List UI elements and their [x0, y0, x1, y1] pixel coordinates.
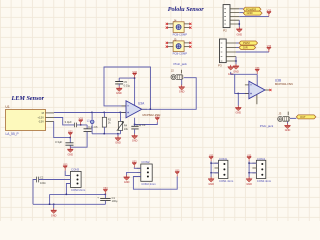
capacitor C3 stub [134, 125, 136, 127]
svg-text:GND: GND [236, 112, 242, 115]
power port V33 at P2 pin3 [267, 9, 272, 16]
resistor R2 bottom lead [103, 127, 105, 134]
svg-text:0.1µ C3: 0.1µ C3 [136, 123, 146, 127]
connector P2 body [223, 5, 230, 28]
power port V33 at CON1 [209, 154, 214, 161]
wire P3 pin1 to port [236, 42, 239, 44]
power port V33 at mid rail [103, 187, 108, 194]
svg-text:C5: C5 [124, 80, 128, 84]
wire CON3 pin3 down to mid rail [66, 184, 70, 195]
op-amp U3A body [126, 101, 142, 118]
svg-text:CON2 2mm: CON2 2mm [141, 182, 156, 186]
power port V33 at P3 pin3 [267, 45, 272, 52]
junction CON4 pin3 [248, 172, 250, 174]
pad J4 circle slot [176, 25, 181, 28]
capacitor C7 3.3uF plates [65, 143, 73, 145]
wire U3B V+ stub [256, 74, 258, 86]
ground GND below caps [67, 147, 73, 152]
pad J4 circle [176, 25, 181, 30]
op-amp U3B V- stub [256, 95, 258, 105]
ground GND under C3 [132, 134, 138, 139]
jack J2 GND stem [181, 79, 183, 85]
wire CON4 pin1 [249, 161, 256, 172]
svg-text:POWER: POWER [246, 7, 256, 11]
svg-text:GND: GND [233, 70, 239, 73]
capacitor C3 plates [131, 126, 138, 129]
op-amp U3A plus minus marks [127, 106, 129, 114]
svg-text:GND: GND [246, 183, 252, 186]
wire P3 pin3 to V33 [236, 51, 269, 53]
svg-text:100µ: 100µ [112, 199, 118, 203]
port POWER [243, 7, 261, 11]
no-connect X marks J4 [166, 23, 168, 25]
ground GND under jack J2 [179, 85, 185, 90]
junction U3B input node [238, 93, 240, 95]
junction supply node [134, 77, 136, 79]
capacitor C5 stub [118, 78, 120, 81]
trimmer R4 body [118, 121, 122, 130]
connector CON2 body [141, 164, 152, 181]
power port V33 on +15V rail [78, 118, 83, 125]
svg-text:GND: GND [247, 11, 253, 15]
connector CON2 pin stubs [137, 168, 141, 176]
wire P2 pin2 to port [239, 12, 243, 14]
svg-text:PCB-COMP: PCB-COMP [173, 52, 188, 56]
wire C6 bottom to ground rail [70, 132, 87, 148]
svg-text:Phdc_jack: Phdc_jack [174, 62, 188, 66]
junction P3 pin5 [235, 60, 237, 62]
svg-text:CON3 2mm: CON3 2mm [71, 188, 86, 192]
svg-text:U3A: U3A [138, 101, 145, 105]
capacitor C5 plates [115, 82, 123, 84]
connector CON3 pin stubs [67, 175, 71, 183]
svg-text:GND: GND [179, 90, 185, 93]
connector P3 pin marks [221, 43, 223, 61]
connector P2 pin marks [224, 9, 226, 24]
svg-text:DIR: DIR [243, 46, 248, 50]
junction mid rail at CON3 drop [66, 194, 68, 196]
svg-text:GND: GND [285, 129, 291, 132]
svg-text:Pololu Sensor: Pololu Sensor [168, 6, 205, 13]
junction on net M at L1 [91, 112, 93, 114]
svg-text:GND: GND [68, 153, 74, 156]
trimmer R4 bottom lead [120, 130, 122, 133]
connector CON1 pin stubs [215, 163, 219, 173]
svg-text:GND: GND [124, 181, 130, 184]
svg-text:C1: C1 [112, 196, 116, 200]
svg-text:P3: P3 [218, 64, 222, 68]
capacitor C4 3.3uF plates [75, 123, 77, 128]
power port V33 on -15V rail [68, 130, 73, 137]
port OUT [296, 115, 316, 119]
svg-text:CON1 4mm: CON1 4mm [219, 179, 234, 183]
wire V33 to CON2 pin1 [134, 166, 141, 169]
svg-text:PWM: PWM [243, 41, 250, 45]
op-amp U3A output stub [142, 108, 147, 110]
ground GND under P3 [233, 64, 239, 69]
svg-text:OUT: OUT [300, 115, 306, 119]
wire CON2 pin3 loop to V33 [133, 176, 177, 189]
svg-text:GND: GND [237, 33, 243, 36]
svg-text:GND: GND [132, 140, 138, 143]
connector CON3 body [71, 171, 82, 187]
wire bottom rail under R cluster [92, 133, 120, 135]
wire net M horizontal to op-amp input [54, 112, 126, 114]
pad J5 body [173, 41, 184, 52]
junction bottom rail at GND stem [117, 133, 119, 135]
junction mid rail at C1 [105, 194, 107, 196]
jack J3 pin1 tick [287, 112, 289, 116]
junction output/feedback [150, 108, 152, 110]
wire output net to jack riser [142, 78, 196, 110]
no-connect X marks J5 [166, 42, 168, 44]
wire -15V pin path [54, 122, 71, 138]
svg-text:0.01µ: 0.01µ [124, 83, 131, 87]
svg-text:P2: P2 [223, 28, 227, 32]
wire jack J3 to port [290, 117, 296, 119]
connector P2 pin stubs [230, 9, 239, 24]
junction P2 pin5 [239, 23, 241, 25]
capacitor C6 plates [84, 129, 92, 132]
svg-text:3.3µF: 3.3µF [65, 120, 72, 124]
ground GND under P2 [236, 27, 242, 32]
wire C3 to GND [134, 129, 136, 134]
power port V33 above U3B [255, 67, 260, 74]
ground GND left of CON2 [124, 175, 130, 180]
svg-text:C2: C2 [40, 176, 44, 180]
capacitor C2 plates [36, 177, 38, 183]
power port V33 at CON4 [247, 154, 252, 161]
ground GND under C5 [116, 86, 122, 91]
connector P3 body [220, 39, 227, 63]
connector CON3 pin dots [77, 174, 79, 176]
connector CON4 body [256, 160, 265, 178]
connector P3 pin stubs [226, 43, 236, 61]
junction -15V cap node [70, 137, 72, 139]
op-amp U3A input stubs [122, 106, 127, 113]
power port V33 at CON2 pin3 [175, 169, 180, 176]
capacitor C1 stub [104, 194, 106, 198]
svg-text:GND: GND [115, 142, 121, 145]
svg-text:LEM Sensor: LEM Sensor [11, 95, 45, 102]
junction CON1 pin3 [210, 172, 212, 174]
junction under V33 power port [80, 124, 82, 126]
power port V33 at CON2 pin1 [132, 160, 137, 167]
connector CON1 pin dots [223, 163, 225, 165]
wire V33 to CON3 pin1 [65, 171, 70, 176]
wire feedback loop [104, 67, 151, 109]
wire U3B top rail [231, 72, 258, 94]
junction bottom rail at R2 [104, 133, 106, 135]
svg-text:10k: 10k [124, 127, 129, 131]
svg-text:GND: GND [51, 214, 57, 217]
pin -15V stub [46, 121, 55, 123]
svg-text:MCP602-I/SN: MCP602-I/SN [275, 82, 293, 86]
wire U3B gnd drop [237, 94, 239, 106]
svg-text:Phdc_jack: Phdc_jack [260, 124, 274, 128]
capacitor C1 plates [100, 198, 110, 200]
svg-text:CON2: CON2 [141, 160, 149, 164]
inductor L1 bottom lead [91, 124, 93, 134]
jack J2 body [171, 75, 183, 80]
op-amp V- pin path [135, 118, 158, 125]
wire cap to GND [69, 145, 71, 147]
junction on net M at R4 [120, 112, 122, 114]
capacitor C7 stub [69, 138, 71, 143]
svg-text:LA_55_P: LA_55_P [6, 132, 19, 136]
op-amp U3B input stubs [245, 85, 249, 94]
wire CON1 GND stem [210, 173, 212, 177]
ground GND top-left of U3B [228, 65, 234, 70]
jack J3 body [278, 116, 290, 121]
connector CON1 body [219, 160, 228, 178]
svg-text:3.3µF: 3.3µF [55, 140, 62, 144]
junction V- node [134, 124, 136, 126]
wire CON2 pin2 to GND [127, 172, 141, 175]
ground GND under CON1 [208, 177, 214, 182]
junction bottom rail [49, 204, 51, 206]
trimmer R4 wiper arrow [117, 122, 124, 131]
port PWM [239, 41, 258, 45]
wire P2 pin4/5 to GND [238, 20, 240, 27]
svg-text:GND: GND [116, 92, 122, 95]
port GND [243, 11, 262, 15]
svg-text:PCB-COMP: PCB-COMP [173, 33, 188, 37]
pin +15V stub [46, 117, 55, 119]
pad J5 circle slot [176, 45, 181, 48]
wire P2 pin3 to V33 [239, 15, 269, 17]
connector CON4 pin dots [261, 163, 263, 165]
wire CON4 GND stem [248, 173, 250, 177]
capacitor C6 stub [86, 125, 88, 129]
pin M stub [46, 112, 55, 114]
connector CON2 pin dots [147, 167, 149, 169]
wire mid rail [50, 193, 106, 195]
wire C5 to GND [118, 84, 120, 86]
op-amp U3B output stub [265, 89, 269, 91]
svg-text:CON4 4mm: CON4 4mm [257, 179, 272, 183]
svg-text:-15V: -15V [38, 120, 44, 124]
svg-text:J3: J3 [278, 111, 281, 115]
resistor R2 body [102, 117, 106, 127]
wire bottom rail [33, 203, 105, 205]
resistor R2 top lead [103, 113, 105, 118]
inductor L1 top lead [91, 113, 93, 120]
pad J4 body [173, 22, 184, 33]
junction CON1 pin1 [210, 162, 212, 164]
port DIR [239, 46, 256, 50]
ground GND under CON4 [246, 177, 252, 182]
wire CON3 pin2 to C2 [33, 180, 71, 205]
jack J2 pin1 tick [181, 70, 183, 74]
wire P3 pin4/5 to GND [235, 57, 237, 65]
trimmer R4 top lead [120, 113, 122, 122]
svg-text:GND: GND [208, 183, 214, 186]
wire C1 to bottom rail [104, 201, 106, 205]
ground GND below U3B [235, 106, 241, 111]
junction CON4 pin1 [248, 162, 250, 164]
junction bottom rail at GND [53, 204, 55, 206]
svg-text:100n: 100n [40, 181, 46, 185]
wire GND stem [53, 204, 55, 208]
svg-text:J2: J2 [171, 69, 174, 73]
svg-text:U1: U1 [5, 105, 9, 109]
wire +15V pin path [54, 118, 87, 125]
wire opamp supply node [119, 78, 134, 106]
sensor U1 body [6, 110, 46, 131]
pad J5 circle [176, 44, 181, 49]
power port V33 on V- rail [155, 115, 160, 122]
ground GND under jack J3 [284, 123, 290, 128]
power port V33 at CON3 pin1 [63, 164, 68, 171]
power port V33 above opamp [132, 71, 137, 78]
wire CON1 pin1 [211, 161, 218, 172]
connector CON4 pin stubs [252, 163, 256, 173]
inductor L1 body [90, 120, 94, 124]
wire P3 pin2 to port [236, 47, 239, 49]
wire mid rail drop to bottom rail [49, 194, 51, 204]
wire GND stem [117, 134, 119, 136]
op-amp U3B body [249, 81, 265, 99]
pad J5 pin stubs [168, 43, 190, 47]
op-amp U3B plus minus marks [250, 85, 252, 95]
svg-text:0.1µ C6: 0.1µ C6 [88, 125, 98, 129]
wire P2 pin1 to port [239, 8, 243, 10]
jack J3 GND stem [287, 122, 289, 124]
ground GND bottom left [51, 208, 57, 213]
no-connect X on U3B output [269, 89, 271, 91]
pad J4 pin stubs [168, 24, 190, 28]
ground GND below bottom rail [115, 136, 121, 141]
junction on net M at R2 [104, 112, 106, 114]
